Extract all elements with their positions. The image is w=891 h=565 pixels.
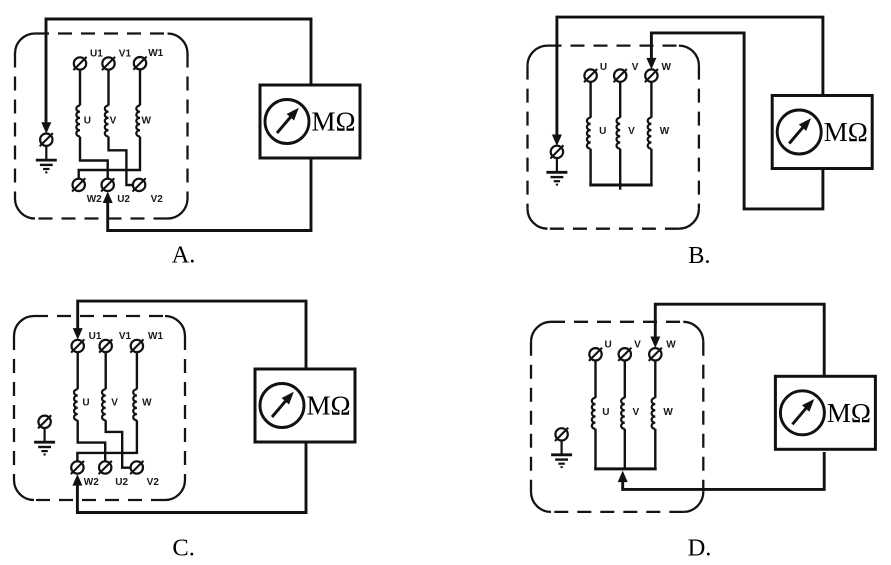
winding V (D) — [621, 361, 625, 469]
svg-text:V: V — [632, 62, 639, 73]
wire: meter bottom lead to U2 (A) — [108, 158, 311, 231]
terminal U2 (C) — [99, 461, 112, 474]
svg-text:W1: W1 — [148, 48, 163, 59]
svg-text:U: U — [599, 126, 606, 137]
svg-text:U: U — [602, 407, 609, 418]
terminal W2 (C) — [71, 461, 84, 474]
star point bar (D) — [594, 467, 657, 470]
terminal W (D) — [649, 348, 662, 361]
ground symbol (D) — [551, 441, 572, 468]
wire: meter top lead to U1 (C) — [78, 301, 306, 369]
arrow into ground terminal (A) — [41, 122, 51, 134]
svg-text:V2: V2 — [147, 477, 160, 488]
svg-text:U: U — [600, 62, 607, 73]
terminal V1 (A) — [102, 57, 115, 70]
svg-text:W2: W2 — [87, 194, 102, 205]
megohmmeter D — [775, 376, 875, 449]
arrow into terminal W (B) — [646, 58, 656, 70]
ground symbol (B) — [546, 158, 567, 185]
svg-text:V: V — [632, 407, 639, 418]
svg-text:W1: W1 — [148, 331, 163, 342]
arrow into terminal U1 (C) — [73, 328, 83, 340]
winding V (B) — [617, 82, 621, 190]
svg-text:D.: D. — [688, 534, 712, 561]
svg-text:V1: V1 — [119, 331, 132, 342]
wire: meter top lead to ground terminal (A) — [46, 19, 311, 126]
ground terminal (A) — [40, 133, 53, 146]
winding W (C): W1 to W2 — [77, 352, 136, 461]
ground symbol (C) — [34, 428, 55, 455]
svg-text:W: W — [141, 115, 151, 126]
terminal W1 (A) — [133, 57, 146, 70]
terminal V2 (C) — [130, 461, 143, 474]
wire: meter bottom lead to W2 (C) — [77, 443, 306, 513]
winding U (B) — [587, 82, 591, 185]
motor enclosure D (dashed frame) — [531, 322, 703, 512]
svg-text:W: W — [663, 407, 673, 418]
terminal U1 (A) — [73, 57, 86, 70]
winding W (D) — [652, 361, 656, 469]
svg-text:U: U — [84, 115, 91, 126]
motor enclosure C (dashed frame) — [14, 316, 185, 500]
winding V (A): V1 to V2 — [105, 70, 133, 185]
svg-text:W: W — [661, 62, 671, 73]
arrow into star point (D) — [618, 471, 628, 483]
svg-text:A.: A. — [172, 242, 196, 269]
svg-text:W: W — [660, 126, 670, 137]
terminal U (B) — [584, 69, 597, 82]
terminal U1 (C) — [71, 339, 84, 352]
arrow into terminal W (D) — [650, 337, 660, 349]
terminal U (D) — [589, 348, 602, 361]
svg-text:C.: C. — [172, 534, 194, 561]
svg-text:U: U — [604, 340, 611, 351]
svg-text:V2: V2 — [151, 194, 164, 205]
megohmmeter B — [772, 96, 872, 169]
motor enclosure A (dashed frame) — [15, 34, 188, 219]
motor enclosure B (dashed frame) — [528, 46, 699, 229]
svg-text:U1: U1 — [89, 331, 102, 342]
winding U (C): U1 to U2 — [74, 352, 105, 461]
svg-text:V1: V1 — [119, 49, 132, 60]
winding U (D) — [592, 361, 596, 469]
terminal V (D) — [618, 348, 631, 361]
wire: meter top lead to terminal W (D) — [655, 304, 824, 376]
winding W (A): W1 to W2 — [79, 70, 140, 179]
arrow into terminal W2 (C) — [72, 474, 82, 486]
svg-text:W: W — [666, 340, 676, 351]
ground terminal (B) — [550, 145, 563, 158]
svg-text:U2: U2 — [115, 477, 128, 488]
svg-text:V: V — [628, 126, 635, 137]
winding V (C): V1 to V2 — [102, 352, 130, 467]
megohmmeter C — [255, 369, 355, 442]
terminal W2 (A) — [72, 178, 85, 191]
ground terminal (D, unconnected) — [555, 428, 568, 441]
winding U (A): U1 to U2 — [76, 70, 107, 179]
ground terminal (C, unconnected) — [38, 415, 51, 428]
star point bar (B) — [589, 184, 652, 187]
wire: meter top lead to ground terminal (B) — [557, 17, 823, 138]
arrow into terminal U2 (A) — [103, 192, 113, 204]
svg-text:V: V — [111, 398, 118, 409]
svg-text:B.: B. — [688, 242, 710, 269]
svg-text:U2: U2 — [117, 194, 130, 205]
svg-text:U: U — [82, 398, 89, 409]
terminal V (B) — [614, 69, 627, 82]
terminal V1 (C) — [99, 339, 112, 352]
terminal W1 (C) — [130, 339, 143, 352]
svg-text:W: W — [142, 398, 152, 409]
terminal W (B) — [645, 69, 658, 82]
winding W (B) — [648, 82, 652, 185]
svg-text:U1: U1 — [90, 49, 103, 60]
wire: meter bottom lead to terminal W (B) — [651, 33, 823, 209]
svg-text:V: V — [634, 340, 641, 351]
megohmmeter A — [260, 85, 360, 158]
svg-text:W2: W2 — [84, 477, 99, 488]
wire: meter bottom lead to star point (D) — [623, 452, 825, 489]
terminal V2 (A) — [133, 178, 146, 191]
ground symbol (A) — [36, 146, 57, 173]
arrow into ground terminal (B) — [552, 135, 562, 147]
terminal U2 (A) — [101, 178, 114, 191]
svg-text:V: V — [110, 115, 117, 126]
